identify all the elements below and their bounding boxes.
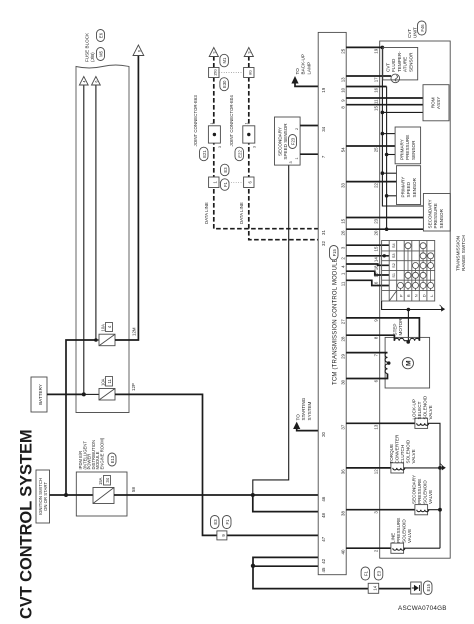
CVT fluid temperature sensor box [383,48,418,80]
svg-text:1: 1 [295,157,299,159]
svg-text:13: 13 [341,77,346,82]
transmission range switch table [382,241,435,302]
svg-text:30: 30 [341,379,346,384]
svg-text:F1: F1 [363,570,368,576]
ground arrow (transmission case) [440,305,445,311]
label SECONDARY PRESSURE SOLENOID VALVE [412,475,434,504]
svg-text:CVT CONTROL SYSTEM: CVT CONTROL SYSTEM [18,430,36,620]
svg-text:10A: 10A [101,324,106,332]
svg-text:CVT: CVT [386,63,391,72]
svg-text:TRANSMISSION: TRANSMISSION [456,236,461,271]
pin numbers CVT unit top edge [374,48,379,552]
wire SSS pin 1 to TCM pin 7 [300,153,318,155]
svg-text:SPEED: SPEED [406,181,411,197]
svg-text:FLUID: FLUID [391,58,396,72]
range switch contact circles [398,243,434,289]
connector F15 [330,246,339,261]
node range/step motor ground junction [407,308,411,312]
svg-text:11: 11 [341,281,346,286]
body ground E15 [411,582,422,594]
svg-text:TCM (TRANSMISSION CONTROL MODU: TCM (TRANSMISSION CONTROL MODULE) [333,256,339,385]
svg-text:F1: F1 [223,181,228,187]
ground arrow solenoid bus [440,464,445,470]
wire CAN data line A (to TCM pin 31) [214,56,318,229]
wire TCM 3 to range switch S4 [346,244,389,246]
IPDM E/R label [78,437,105,469]
label STEP MOTOR [393,318,404,336]
arrow battery continue [79,77,88,86]
node fuse4 feed junction [94,338,98,342]
wire TCM 33 to CVT 22 primary speed signal [346,181,396,183]
svg-text:16: 16 [374,87,379,92]
label TORQUE CONVERTER CLUTCH SOLENOID VALVE [389,434,416,463]
node battery junction [82,392,86,396]
svg-text:20: 20 [321,431,326,436]
wire TCM pin 20 to starting system [297,429,319,431]
node bus to ROM [381,111,385,115]
wire TCM pin 45 ground [253,565,318,567]
svg-text:ON OR START: ON OR START [43,482,48,511]
svg-text:SENSOR: SENSOR [411,140,416,160]
svg-text:SYSTEM: SYSTEM [307,401,312,420]
svg-text:3: 3 [218,146,222,148]
svg-text:SECONDARY: SECONDARY [428,199,433,228]
svg-text:S4: S4 [392,243,396,248]
wire secondary speed sensor pin 3 return [253,165,289,495]
svg-text:6: 6 [95,80,99,82]
node TCC ground [438,466,442,470]
svg-text:38: 38 [341,511,346,516]
svg-text:29: 29 [341,353,346,358]
wire TCM 40 to line pressure solenoid [346,547,391,549]
svg-text:20: 20 [374,230,379,235]
svg-text:E30: E30 [222,80,227,88]
wire battery feed down [47,393,84,395]
svg-text:P: P [399,294,404,297]
svg-text:TEMPER-: TEMPER- [397,51,402,72]
svg-text:8G: 8G [248,70,252,75]
coil C [385,353,387,363]
svg-text:F23: F23 [291,137,296,145]
svg-text:F46: F46 [420,24,425,32]
fuse block (J/B) box [76,65,129,413]
arrow to starting system [293,422,300,429]
wire lock-up solenoid to ground bus [428,423,440,548]
wire ground run to body ground [253,566,411,589]
wire TCM 15 to CVT 23 secondary pressure [346,217,423,219]
svg-text:E3: E3 [377,570,382,576]
wire TCM 2 to range switch S3 [346,255,389,257]
secondary pressure solenoid valve [415,505,429,515]
wire TCM 37 to lock-up select solenoid [346,422,415,424]
connector F1 (ground wire) [361,567,370,580]
wire TCM 30 to step motor coil D [346,374,387,379]
connector E3 (ground wire) [374,567,383,580]
svg-text:10: 10 [341,87,346,92]
svg-text:33: 33 [341,182,346,187]
svg-text:SOLENOID: SOLENOID [423,480,428,504]
svg-text:DATA LINE: DATA LINE [239,202,244,224]
svg-text:UNIT: UNIT [413,27,418,38]
svg-text:26: 26 [341,230,346,235]
pin numbers TCM top edge [321,87,326,572]
battery box [31,377,47,412]
wire sensor ground bus [386,87,388,230]
svg-text:M1: M1 [222,57,227,63]
coil D [385,364,387,374]
wire ground bus branch primary speed sensor [387,195,397,197]
ROM assy box [423,85,449,121]
svg-text:E3: E3 [223,167,228,173]
svg-text:CONVERTER: CONVERTER [395,434,400,463]
pin numbers TCM bottom edge [341,48,346,554]
svg-text:MOTOR: MOTOR [398,318,403,336]
connector E3 (12P wire) [211,516,220,529]
svg-text:BACK-UP: BACK-UP [301,54,306,74]
wire TCM 8 to CVT 15 ROM [346,104,423,106]
svg-text:PRESSURE: PRESSURE [405,135,410,160]
label TO STARTING SYSTEM [296,397,312,420]
svg-text:E3: E3 [213,519,218,525]
svg-text:(J/B): (J/B) [90,52,95,62]
coil A [394,338,404,340]
svg-text:3: 3 [289,161,293,163]
svg-text:36: 36 [341,469,346,474]
primary speed sensor box [397,166,421,205]
fuse 4 10A [96,323,115,346]
node ground bus to primary pressure sensor [385,153,389,157]
connector E30 [220,78,229,91]
torque converter clutch solenoid valve [391,463,405,473]
svg-text:S1: S1 [392,273,396,278]
svg-text:ENGINE ROOM): ENGINE ROOM) [100,437,105,469]
svg-text:11: 11 [107,378,112,383]
svg-text:IGNITION SWITCH: IGNITION SWITCH [38,478,43,515]
svg-text:12: 12 [374,469,379,474]
svg-text:37: 37 [341,424,346,429]
svg-text:STEP: STEP [393,324,398,336]
svg-text:17: 17 [374,77,379,82]
wire coil A to common node [404,340,408,342]
wire TCC solenoid to ground bus [404,467,440,469]
svg-text:E22: E22 [237,150,242,158]
line pressure solenoid valve [391,543,405,553]
svg-text:BATTERY: BATTERY [38,384,43,405]
svg-text:SPEED SENSOR: SPEED SENSOR [283,123,288,160]
wire secondary pressure solenoid to ground bus [428,509,440,511]
arrow ignition continue [92,77,101,86]
wire TCM 11 to range switch common [346,280,389,285]
inline connector box pin 14 on ground wire [368,583,379,593]
ignition switch box [36,470,50,523]
svg-text:14: 14 [374,257,379,262]
wire range switch ground [382,301,443,310]
inline connector box 1 on CAN A [209,177,219,188]
svg-text:19: 19 [374,48,379,53]
wire ignition bus to arrow [95,85,97,341]
thermistor symbol [391,74,400,83]
wire coil B to common node [408,340,410,342]
svg-text:15G: 15G [213,69,217,76]
node ground junction [251,564,255,568]
svg-text:3: 3 [252,146,256,148]
wire bus branch to primary speed sensor [382,172,396,174]
svg-text:9: 9 [213,51,217,53]
inline connector box pin 9 on 12P wire [217,531,227,540]
node secondary pressure ground [438,508,442,512]
svg-text:CLUTCH: CLUTCH [400,445,405,464]
node ground bus to primary speed sensor [385,194,389,198]
svg-text:19: 19 [321,87,326,92]
dotted connector pairing line E3/F1 [219,181,244,183]
connector E15 [424,581,433,595]
wire ignition bus right [66,340,96,495]
secondary speed sensor box [275,117,301,165]
svg-text:23: 23 [374,218,379,223]
svg-text:9: 9 [248,51,252,53]
svg-text:48: 48 [321,512,326,517]
node step motor common A/B [406,340,410,344]
node step motor common C/D [387,361,390,364]
svg-text:M5: M5 [99,50,104,56]
svg-text:6: 6 [137,50,141,52]
wire TCM pin 42 ground [253,557,318,565]
range switch contact chain lines [401,246,431,291]
label TRANSMISSION RANGE SWITCH [456,235,467,271]
svg-text:34: 34 [105,477,110,482]
svg-text:PRIMARY: PRIMARY [400,139,405,160]
svg-text:E21: E21 [202,150,207,158]
svg-text:22: 22 [374,182,379,187]
wire step motor common feed [407,310,409,343]
wire 12P from fuse 11 to TCM pin 47 [115,394,318,535]
wire bus branch to ROM assy [382,111,423,113]
wire sensor supply bus [382,47,423,206]
svg-text:15A: 15A [98,477,103,485]
svg-text:M: M [405,360,412,365]
svg-text:25: 25 [374,147,379,152]
svg-text:TO: TO [296,414,301,421]
wire TCM pin 48 link [253,495,318,512]
svg-text:58: 58 [131,487,136,492]
svg-text:14: 14 [372,585,377,590]
wire TCM 26 to CVT 20 secondary pressure [346,228,423,230]
svg-text:VALVE: VALVE [407,529,412,543]
lock-up select solenoid valve [415,418,429,428]
label LINE PRESSURE SOLENOID VALVE [391,518,413,543]
node ignition junction [64,493,68,497]
wire TCM 10 to CVT 16 sensor ground bus [346,86,386,88]
wire TCM 54 to CVT 25 primary pressure signal [346,145,395,147]
connector E13 [108,453,116,466]
wire TCM 36 to torque converter clutch solenoid [346,467,391,469]
connector E22 [235,147,244,161]
svg-text:15: 15 [374,246,379,251]
svg-text:SECONDARY: SECONDARY [278,127,283,156]
svg-text:25: 25 [341,48,346,53]
svg-text:45: 45 [321,567,326,572]
svg-text:S2: S2 [392,263,396,268]
wire TCM 38 to secondary pressure solenoid [346,509,415,511]
svg-text:42: 42 [321,558,326,563]
svg-text:ROM: ROM [431,97,436,108]
svg-text:32: 32 [321,241,326,246]
arrow CAN B continue [244,48,253,57]
svg-text:JOINT CONNECTOR-E63: JOINT CONNECTOR-E63 [193,95,198,147]
svg-text:RANGE SWITCH: RANGE SWITCH [461,235,466,271]
svg-text:47: 47 [321,536,326,541]
svg-text:31: 31 [321,230,326,235]
svg-text:VALVE: VALVE [428,405,433,419]
connector E21 [200,147,209,161]
connector F1 (12P wire) [223,516,232,529]
coil B [410,338,420,340]
svg-text:F15: F15 [332,249,337,257]
wire TCM 28 to step motor coil A [346,335,394,341]
svg-text:12M: 12M [132,327,137,336]
wire ground bus branch primary pressure sensor [387,154,396,156]
svg-text:PRESSURE: PRESSURE [433,203,438,228]
inline connector box 6 on CAN B [244,177,254,188]
wire TCM 25 to CVT 19 sensor supply [346,46,382,48]
wire 58 from IPDM fuse to TCM pin 46 [114,494,318,496]
svg-text:15: 15 [341,218,346,223]
step motor box [385,337,430,388]
svg-text:ASCWA0704GB: ASCWA0704GB [398,605,447,612]
wire 12M from fuse 4 to arrow [115,56,138,341]
svg-text:11: 11 [374,99,379,104]
node on pin 2 wire [383,254,386,257]
wire CAN data line B (to TCM pin 32) [249,56,318,240]
svg-text:S3: S3 [392,253,396,258]
arrow CAN A continue [209,48,218,57]
dotted connector pairing line M1/E30 [219,72,244,74]
svg-text:E13: E13 [110,455,115,463]
svg-text:TORQUE: TORQUE [389,444,394,464]
IPDM E/R box [76,472,127,516]
connector box 8G [244,68,254,78]
svg-text:VALVE: VALVE [428,490,433,504]
svg-text:SENSOR: SENSOR [408,52,413,72]
svg-text:LINE: LINE [391,533,396,543]
svg-text:N: N [414,294,419,297]
wire ignition feed [50,494,67,496]
svg-text:SOLENOID: SOLENOID [406,439,411,463]
svg-text:46: 46 [321,496,326,501]
svg-text:12P: 12P [131,383,136,391]
node bus to primary speed sensor [381,171,385,175]
arrow to back-up lamp [291,76,298,84]
wire TCM pin 19 to back-up lamp [295,84,318,87]
svg-text:34: 34 [321,126,326,131]
wire TCM 27 to step motor coil B [346,318,419,341]
joint connector E63 box [208,123,222,149]
svg-text:54: 54 [341,147,346,152]
node bus to primary pressure sensor [381,132,385,136]
svg-text:R: R [406,294,411,297]
svg-text:LAMP: LAMP [306,62,311,75]
svg-text:SOLENOID: SOLENOID [423,395,428,419]
svg-text:LOCK-UP: LOCK-UP [412,399,417,419]
svg-text:PRESSURE: PRESSURE [417,479,422,504]
svg-text:27: 27 [341,319,346,324]
svg-text:40: 40 [341,549,346,554]
svg-text:SOLENOID: SOLENOID [402,519,407,543]
connector E3 (CAN) [221,164,230,176]
fuse 34 15A in IPDM [66,476,114,504]
wire line pressure solenoid to ground bus [404,547,440,549]
svg-text:E15: E15 [426,583,431,591]
svg-text:PRESSURE: PRESSURE [396,518,401,543]
range switch position labels [399,294,434,297]
svg-text:10A: 10A [101,378,106,386]
svg-text:ASSY: ASSY [436,97,441,109]
connector M5 [97,48,105,61]
svg-text:D: D [421,294,426,297]
svg-text:FUSE BLOCK: FUSE BLOCK [85,32,90,62]
svg-text:JOINT CONNECTOR-E04: JOINT CONNECTOR-E04 [229,95,234,147]
svg-text:1: 1 [244,123,248,125]
label TO BACK-UP LAMP [295,54,311,74]
wire battery bus to arrow [83,85,85,395]
svg-text:ATURE: ATURE [403,57,408,72]
svg-text:28: 28 [341,336,346,341]
svg-text:STARTING: STARTING [301,397,306,420]
svg-text:F1: F1 [225,519,230,525]
primary pressure sensor box [395,127,421,164]
node ground bus end at pin 26 wire [385,227,389,231]
svg-text:TO: TO [295,68,300,75]
wire TCM 9 to CVT 11 ROM [346,97,423,99]
svg-text:VALVE: VALVE [411,449,416,463]
fuse block label [85,32,96,62]
connector F1 (CAN) [221,179,230,191]
TCM box [318,32,346,574]
wire bus branch to primary pressure sensor [382,133,395,135]
svg-text:CVT: CVT [407,29,412,38]
node sensor supply bus start [381,46,385,50]
wire TCM 13 to CVT 17 temp sensor [346,75,391,77]
range switch header labels [392,243,396,277]
wire TCM 29 to step motor coil C [346,352,387,354]
node pin48 and sensor branch junction [251,493,255,497]
label LOCK-UP SELECT SOLENOID VALVE [412,395,434,419]
label CVT UNIT [407,21,426,38]
connector M1 [220,54,229,67]
svg-text:SENSOR: SENSOR [412,177,417,197]
joint connector E04 box [243,123,257,149]
wire TCM 4 to range switch S2 [346,264,389,265]
wire SSS pin 2 to TCM pin 34 [300,125,318,127]
svg-text:SECONDARY: SECONDARY [412,475,417,504]
svg-text:PRIMARY: PRIMARY [401,177,406,198]
svg-text:DATA LINE: DATA LINE [204,202,209,224]
connector E6 [97,30,105,42]
svg-text:4: 4 [83,80,87,82]
svg-text:13: 13 [374,424,379,429]
svg-text:SELECT: SELECT [417,401,422,419]
CVT unit box [380,41,451,558]
svg-text:15: 15 [374,106,379,111]
svg-text:SENSOR: SENSOR [439,208,444,228]
motor symbol M [402,358,413,369]
svg-text:2: 2 [295,128,299,130]
svg-text:1: 1 [210,123,214,125]
arrow 12M continue [133,45,144,56]
secondary pressure sensor box [423,194,450,232]
fuse 11 10A [84,377,115,401]
wire TCM 1 to range switch S1 [346,271,389,275]
